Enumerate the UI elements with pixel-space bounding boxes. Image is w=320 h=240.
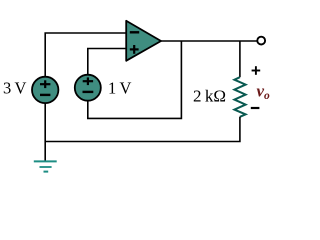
feedback wire: output node down, left, up to 1V source bottom [88, 41, 182, 118]
op-amp U1 [126, 21, 161, 61]
plus sign of vo [252, 66, 261, 75]
svg-text:2 kΩ: 2 kΩ [193, 86, 226, 105]
wire from resistor bottom to ground rail [45, 117, 240, 142]
svg-text:vo: vo [257, 82, 271, 103]
voltage source V2 1V [75, 75, 101, 101]
wire from output node down to resistor top [239, 41, 241, 77]
resistor 2k zigzag [234, 77, 245, 117]
wire from 3V source top to op-amp inverting input [45, 33, 126, 77]
voltage source V1 3V [32, 77, 58, 103]
output wire from op-amp to terminal [160, 40, 257, 42]
minus sign of vo [251, 107, 260, 109]
svg-text:1 V: 1 V [108, 78, 132, 97]
ground [34, 161, 57, 171]
wire from 3V source bottom through rail to ground [44, 103, 46, 161]
svg-text:3 V: 3 V [3, 79, 27, 98]
wire from 1V source top to op-amp noninverting input [88, 49, 126, 76]
output terminal (open circle) [257, 37, 265, 45]
